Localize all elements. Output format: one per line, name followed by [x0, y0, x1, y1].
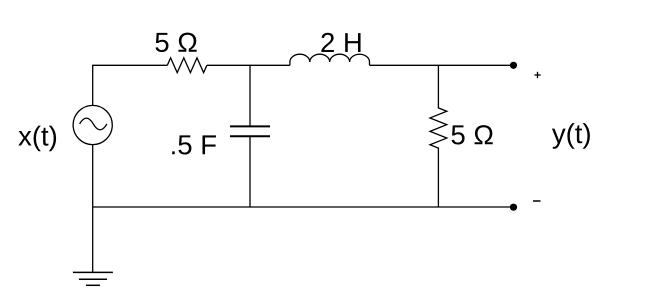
wire top-left segment — [93, 65, 168, 105]
label x(t) — [18, 126, 56, 152]
wire capacitor bottom lead — [249, 136, 251, 207]
wire top-middle segment — [207, 64, 290, 66]
wire left vertical below source — [92, 145, 94, 273]
voltage source U1 x(t) — [73, 105, 112, 144]
node + terminal dot — [510, 62, 517, 69]
label 5 ohm R2 — [452, 125, 493, 144]
node - terminal dot — [510, 204, 517, 211]
label 2 H — [321, 33, 360, 52]
ground — [73, 272, 113, 285]
resistor R1 5 ohm series zigzag — [167, 58, 207, 73]
wire top-right segment — [370, 64, 514, 66]
label + — [534, 72, 540, 78]
wire capacitor top lead — [249, 65, 251, 126]
label 5 ohm R1 — [155, 33, 196, 52]
resistor R2 5 ohm shunt — [430, 65, 447, 207]
capacitor C1 .5 F plates — [230, 126, 270, 136]
label y(t) — [552, 123, 590, 149]
label .5 F — [172, 135, 216, 154]
wire bottom rail — [93, 206, 514, 208]
inductor L1 2 H — [290, 54, 370, 65]
label - — [533, 200, 541, 202]
